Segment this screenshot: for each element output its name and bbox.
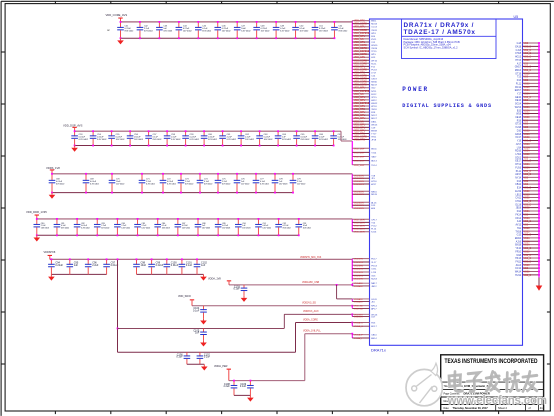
pin right 42 [517,180,540,183]
capacitor C72 [160,174,176,193]
svg-text:1uF: 1uF [74,264,79,267]
pin right 32 [517,146,540,149]
pin right 1 [517,42,540,45]
svg-text:VDD_DSP: VDD_DSP [354,148,365,150]
capacitor C81 [54,219,69,235]
wire gnd return PER [234,394,250,396]
svg-text:LY17: LY17 [371,72,377,74]
svg-text:VDD_GPU: VDD_GPU [354,42,365,44]
svg-text:DRA71x / DRA79x /: DRA71x / DRA79x / [404,22,475,29]
svg-text:NP: NP [107,30,111,32]
svg-text:PL11: PL11 [516,171,522,173]
pin right 59 [515,237,540,240]
svg-text:VSS3: VSS3 [524,83,531,85]
pin right 51 [517,210,540,213]
pin right 10 [515,72,540,75]
svg-text:CA11: CA11 [515,197,521,200]
svg-text:VSS3: VSS3 [524,194,531,196]
pin vdds 2 [352,178,375,180]
svg-text:0.1uF: 0.1uF [233,288,240,291]
svg-text:VSS_C: VSS_C [524,262,532,264]
svg-text:VSS3: VSS3 [524,130,531,132]
capacitor C96 [85,259,99,274]
svg-text:CB10: CB10 [371,335,377,337]
svg-text:VSS: VSS [524,184,529,186]
svg-text:KP18: KP18 [371,106,377,108]
svg-text:VDD_RTC: VDD_RTC [354,109,365,111]
capacitor C55 [108,131,125,145]
svg-text:A10: A10 [517,220,522,223]
wire VDD_DSP_AVS ground return rail [75,145,334,147]
pin left 16 [352,66,375,68]
svg-text:Date:: Date: [444,407,450,410]
svg-text:16V 0603: 16V 0603 [134,139,144,141]
svg-text:D13: D13 [517,181,522,183]
svg-text:RJ12: RJ12 [371,94,377,96]
svg-text:Y17: Y17 [517,94,522,96]
pin left 9 [352,45,378,47]
pin left 15 [352,63,377,65]
svg-text:10V 0402: 10V 0402 [222,30,232,32]
pin right 44 [517,187,540,190]
svg-text:DT12: DT12 [515,164,521,166]
svg-text:10V 0402: 10V 0402 [297,183,305,185]
capacitor C45 [195,22,212,38]
svg-text:B15: B15 [517,110,522,112]
svg-text:10V 0402: 10V 0402 [261,30,271,32]
svg-text:VDDS18V: VDDS18V [354,191,365,193]
svg-text:VDDSHV: VDDSHV [354,279,364,281]
svg-text:UG11: UG11 [371,299,377,301]
capacitor C67 [330,131,347,145]
svg-text:VSSA: VSSA [524,166,531,169]
svg-text:HT16: HT16 [371,181,377,183]
svg-text:of: of [529,407,531,410]
svg-text:FU17: FU17 [371,259,377,261]
svg-text:AR17: AR17 [515,173,521,176]
pin right 67 [516,264,540,267]
pin dsp 3 [352,156,377,159]
svg-text:VSS3: VSS3 [524,251,531,253]
svg-text:VDD_RTC: VDD_RTC [354,140,365,142]
pin aux pair [351,313,378,318]
wire vertical drop from VDDSHV rail [117,259,119,352]
svg-text:6V3 0402: 6V3 0402 [208,139,218,141]
svg-text:ET19: ET19 [516,124,522,126]
wire VDDA_PER [229,334,352,381]
pin ddr 2 [352,222,376,224]
pin left 3 [352,27,377,29]
IC pin rail group DSP [351,141,353,165]
power flag VDD_DSP_AVS [63,124,83,132]
pin left 26 [352,97,377,99]
svg-text:VSS_C: VSS_C [524,258,532,260]
svg-text:EB11: EB11 [371,21,377,23]
svg-text:FU16: FU16 [515,167,521,169]
svg-text:VDD_MPU: VDD_MPU [354,130,366,132]
svg-text:LH16: LH16 [516,154,522,156]
svg-text:6.3V 0402: 6.3V 0402 [90,183,99,185]
svg-text:VSSA: VSSA [524,237,531,240]
svg-text:6V3 0402: 6V3 0402 [185,183,193,185]
svg-text:VSS_C: VSS_C [524,275,532,277]
IC pin rail group SHV [351,259,353,282]
pin vdda pll pair [351,333,377,340]
svg-text:VDD_MPU: VDD_MPU [354,124,366,126]
svg-text:VDD_CORE: VDD_CORE [354,85,367,87]
pin right 64 [517,254,540,257]
svg-text:VDD_MPU: VDD_MPU [354,27,366,29]
svg-text:VDDS18V: VDDS18V [354,208,365,210]
pin right 68 [515,267,540,270]
pin left 19 [352,76,376,78]
svg-text:VDD_MPU: VDD_MPU [354,112,366,114]
capacitor C48 [253,22,270,38]
svg-text:16V 0603: 16V 0603 [162,227,170,229]
svg-text:TE11: TE11 [371,137,377,139]
svg-text:10V 0402: 10V 0402 [264,139,274,141]
svg-text:PC18: PC18 [371,69,377,71]
pin right 65 [515,257,540,260]
capacitor C51 [312,22,329,38]
svg-text:VDD_MPU: VDD_MPU [354,36,366,38]
svg-text:VDD_DSP: VDD_DSP [354,161,365,163]
pin left 2 [352,24,378,26]
capacitor C100 [164,259,179,274]
pin left 13 [352,57,376,59]
svg-text:TEXAS INSTRUMENTS INCORPORATED: TEXAS INSTRUMENTS INCORPORATED [445,358,538,365]
svg-text:RC12: RC12 [515,87,522,89]
wire VDD_SDIO [192,305,352,307]
capacitor C49 [273,22,290,38]
ground cluster PER [247,395,254,401]
svg-text:VC17: VC17 [515,137,521,139]
pin left 38 [352,133,377,135]
svg-text:VDDA_1V8_PLL: VDDA_1V8_PLL [303,330,321,333]
pin vdda core pair [351,322,377,329]
svg-text:VDDA_C: VDDA_C [354,322,363,325]
svg-text:VSS_C: VSS_C [524,201,532,203]
svg-text:FR10: FR10 [515,251,521,253]
wire row1 rail to IC [121,21,353,23]
svg-text:GD18: GD18 [515,134,522,136]
svg-text:VSS: VSS [524,214,529,216]
svg-text:VSS: VSS [524,225,529,227]
capacitor C95 [67,259,79,274]
svg-text:VDD_DSPEVE: VDD_DSPEVE [354,91,370,93]
pin ddr 3 [352,226,377,228]
svg-text:VDD_MPU: VDD_MPU [354,115,366,117]
svg-text:VDDS18V: VDDS18V [354,178,365,180]
svg-text:VSS_C: VSS_C [524,67,532,69]
ground VDDSHV B [200,274,207,280]
svg-text:M18: M18 [517,255,522,257]
pin right 31 [516,143,540,146]
pin vdds 8 [352,205,376,207]
svg-text:ND17: ND17 [371,115,377,117]
svg-text:VDDSHV: VDDSHV [354,272,364,274]
svg-text:PG13: PG13 [371,265,377,267]
svg-text:VDD_RTC: VDD_RTC [354,21,365,23]
svg-text:VDD_CORE: VDD_CORE [354,48,367,50]
capacitor C50 [292,22,309,38]
svg-text:2.2uF: 2.2uF [223,385,230,388]
pin vdds 9 [352,207,376,210]
pin sdio pair [351,305,377,311]
op IC U5 DRA71x body [370,19,523,345]
svg-text:6V3 0402: 6V3 0402 [153,139,163,141]
right rail stub to ground [538,278,540,286]
capacitor C71 [139,174,155,193]
pin right 17 [515,96,540,99]
svg-text:TN18: TN18 [515,231,521,233]
svg-text:VDD_DSP: VDD_DSP [354,157,365,159]
svg-text:A17: A17 [517,62,522,65]
svg-text:VDD_MPU: VDD_MPU [354,100,366,102]
svg-text:DIGITAL SUPPLIES & GNDS: DIGITAL SUPPLIES & GNDS [402,103,492,109]
svg-text:JF18: JF18 [371,140,377,142]
svg-text:LJ19: LJ19 [371,272,377,274]
svg-text:VW11: VW11 [371,30,378,32]
svg-text:FK14: FK14 [516,214,522,216]
pin right 4 [515,52,540,55]
svg-text:VDD_DSPEVE: VDD_DSPEVE [354,33,370,35]
capacitor C98 [133,259,146,274]
svg-text:VDDS18V: VDDS18V [354,202,365,204]
svg-text:VSS3: VSS3 [524,208,531,210]
pin right 69 [515,271,540,274]
capacitor C64 [275,131,292,145]
svg-text:VDDS18V: VDDS18V [354,205,365,207]
pin right 12 [517,79,540,82]
svg-text:VSSA: VSSA [524,109,531,112]
pin left 5 [352,33,376,35]
svg-text:KV11: KV11 [371,39,377,41]
svg-text:VSSA: VSSA [524,146,531,149]
capacitor C103 [233,285,247,296]
pin left 35 [352,124,378,126]
svg-text:16V 0603: 16V 0603 [279,183,287,185]
pin left 24 [352,91,377,93]
svg-text:DRA71x: DRA71x [371,347,386,352]
svg-text:KM10: KM10 [371,82,377,84]
svg-text:VSS_C: VSS_C [524,57,532,59]
pin left 32 [352,115,377,117]
svg-text:VSS_C: VSS_C [524,221,532,223]
pin left 28 [352,103,378,105]
svg-text:VDD_MPU: VDD_MPU [354,118,366,120]
svg-text:VDD_DDR: VDD_DDR [354,219,365,221]
watermark chinese characters [449,372,463,392]
svg-text:VSS_C: VSS_C [524,70,532,72]
capacitor C69 [83,174,99,193]
svg-text:HF12: HF12 [371,100,377,102]
pin left 25 [352,93,377,96]
power flag VDD_SDIO [178,295,194,306]
wire gnd return A [51,273,106,275]
capacitor C79 [290,174,306,193]
pin right 9 [515,69,540,72]
svg-text:YE18: YE18 [371,109,377,111]
capacitor C75 [215,174,231,193]
ground VDD_CORE_AVS [117,38,124,44]
svg-text:VSS3: VSS3 [524,231,531,233]
pin left 27 [352,100,377,102]
svg-text:6.3V 0402: 6.3V 0402 [167,183,176,185]
svg-text:EB14: EB14 [371,338,377,340]
svg-text:VDD_CORE: VDD_CORE [354,60,367,62]
capacitor C56 [127,131,144,145]
pin right 55 [516,224,540,227]
capacitor C88 [195,219,210,235]
pin vdds 4 [352,183,377,186]
pin right 18 [515,99,540,102]
pin right 30 [517,140,540,143]
svg-text:6V3 0402: 6V3 0402 [301,139,311,141]
svg-text:JV17: JV17 [516,144,522,146]
svg-text:MD13: MD13 [515,70,522,72]
wire row2 jog to IC [334,131,352,141]
pin right 60 [516,240,540,243]
pin right 21 [517,109,540,112]
pin right 58 [517,234,540,237]
svg-text:VDDA_P: VDDA_P [354,334,363,337]
svg-text:16V 0603: 16V 0603 [242,227,250,229]
pin right 47 [515,197,539,200]
wire VDD_DDR_1V35 rail [37,218,353,220]
svg-text:VDD_RTC: VDD_RTC [354,72,365,74]
svg-text:VDD_GPU: VDD_GPU [354,106,365,108]
svg-text:0.01uF: 0.01uF [171,264,179,267]
svg-text:MD17: MD17 [371,85,378,87]
svg-text:VDD_DDR: VDD_DDR [354,229,365,231]
svg-text:VL17: VL17 [371,262,377,264]
pin left 6 [352,36,376,38]
svg-text:VDDA18: VDDA18 [354,298,363,301]
svg-text:VSSA: VSSA [524,143,531,146]
pin right 5 [515,56,540,59]
svg-text:CC13: CC13 [371,27,377,29]
svg-text:W18: W18 [516,114,521,116]
svg-text:VDD_IVA: VDD_IVA [354,38,364,41]
svg-text:VSS_C: VSS_C [524,255,532,257]
svg-text:www.elecfans.com: www.elecfans.com [447,395,548,407]
svg-text:VSS_C: VSS_C [524,235,532,237]
svg-text:Thursday, November 30, 2017: Thursday, November 30, 2017 [453,407,489,410]
pin right 53 [516,217,540,220]
pin right 46 [516,193,540,196]
svg-text:2.2uF: 2.2uF [92,264,99,267]
pin left 40 [352,140,377,142]
capacitor C99 [148,259,163,274]
capacitor C85 [134,219,150,235]
svg-text:6.3V 0402: 6.3V 0402 [260,183,269,185]
capacitor C91 [255,219,271,235]
capacitor C108 [223,381,237,396]
svg-text:VDDSHV: VDDSHV [354,269,364,271]
svg-text:VDD_CORE: VDD_CORE [354,63,367,65]
wire VDDA_1V8 [229,284,352,286]
svg-text:VSS: VSS [524,77,529,79]
svg-text:10V 0402: 10V 0402 [116,183,124,185]
svg-text:16V 0603: 16V 0603 [202,227,210,229]
pin left 17 [352,69,377,71]
svg-text:VSSA: VSSA [524,103,531,106]
svg-text:VSSA: VSSA [524,240,531,243]
svg-text:TV12: TV12 [371,226,377,228]
capacitor C52 [331,22,348,38]
IC pin rail group 1V8 [351,174,353,208]
svg-text:VSSA: VSSA [524,89,531,92]
svg-text:NU13: NU13 [371,279,377,281]
svg-text:6.3V 0402: 6.3V 0402 [241,30,251,32]
svg-text:16V 0603: 16V 0603 [41,227,49,229]
IC left pin bus rail [351,21,353,140]
pin left 11 [352,51,377,53]
svg-text:10V 0402: 10V 0402 [300,30,310,32]
pin right 39 [516,170,540,173]
svg-text:VSS3: VSS3 [524,114,531,116]
svg-text:VSS_C: VSS_C [524,174,532,176]
svg-text:VSS3: VSS3 [524,228,531,230]
svg-text:NP14: NP14 [371,306,377,308]
svg-text:FL11: FL11 [516,83,522,85]
pin right 11 [517,76,540,79]
capacitor C70 [109,174,125,193]
svg-text:R19: R19 [517,120,522,122]
svg-text:16V 0603: 16V 0603 [222,227,230,229]
svg-text:D10: D10 [517,130,522,132]
pin left 12 [352,54,376,56]
svg-text:VSS: VSS [524,157,529,159]
svg-text:VSSA: VSSA [524,217,531,220]
power flag VDDS_1V8 [46,166,60,174]
wire VDD_DSP_AVS rail [75,130,335,132]
svg-text:VSS3: VSS3 [524,60,531,62]
pin right 38 [515,166,540,169]
pin shv 6 [352,275,376,277]
pin right 24 [517,119,540,122]
wire bottom horizontal [118,323,353,353]
title block doc row [444,399,539,403]
svg-text:LB12: LB12 [516,194,522,196]
capacitor C60 [201,131,218,145]
svg-text:VDD_GPU: VDD_GPU [354,57,365,59]
capacitor C42 [137,22,154,38]
pin right 13 [516,82,540,85]
svg-text:NB17: NB17 [371,283,377,285]
svg-text:G15: G15 [517,235,522,237]
svg-text:VSSA: VSSA [524,150,531,153]
svg-text:VDD3V3: VDD3V3 [354,317,363,319]
svg-text:VSS3: VSS3 [524,117,531,119]
pin shv 4 [352,269,377,271]
pin left 31 [352,112,376,114]
svg-text:VDDA_CORE: VDDA_CORE [303,318,318,321]
capacitor C80 [34,219,49,235]
svg-text:VSS3: VSS3 [524,198,531,200]
svg-text:VDD_DSPEVE: VDD_DSPEVE [354,103,370,105]
capacitor C77 [253,174,269,193]
svg-text:BD13: BD13 [371,161,377,163]
svg-text:AL16: AL16 [371,201,377,204]
svg-text:JG13: JG13 [516,265,522,267]
ground VDD_SDIO [200,318,207,324]
svg-text:NT11: NT11 [371,91,377,93]
svg-text:EU19: EU19 [515,191,521,193]
pin right 28 [515,133,540,136]
pin right 41 [515,177,540,180]
